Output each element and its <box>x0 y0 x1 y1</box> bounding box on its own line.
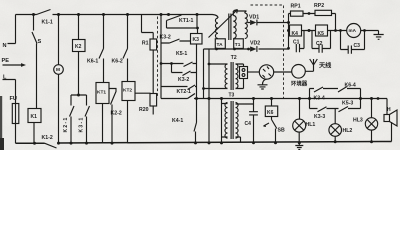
svg-text:C2: C2 <box>316 41 323 47</box>
svg-text:K6-4: K6-4 <box>345 83 356 89</box>
svg-text:HL3: HL3 <box>353 118 363 124</box>
svg-text:M: M <box>56 67 60 73</box>
svg-text:KT1-1: KT1-1 <box>179 18 194 24</box>
svg-text:KT2: KT2 <box>123 88 132 94</box>
svg-text:C4: C4 <box>245 121 252 127</box>
svg-text:C3: C3 <box>354 43 361 49</box>
svg-text:K3-1: K3-1 <box>79 116 85 132</box>
svg-text:K2-1: K2-1 <box>63 116 69 132</box>
svg-text:T2: T2 <box>231 55 237 61</box>
svg-text:KT1: KT1 <box>97 90 106 96</box>
svg-text:K2-2: K2-2 <box>111 111 122 117</box>
svg-text:RP1: RP1 <box>291 4 301 10</box>
svg-text:K6-1: K6-1 <box>87 59 98 65</box>
svg-text:K4: K4 <box>292 31 299 37</box>
svg-text:VD2: VD2 <box>250 41 260 47</box>
svg-text:K1-1: K1-1 <box>42 20 53 26</box>
svg-text:环境器: 环境器 <box>291 80 308 88</box>
svg-text:K5: K5 <box>318 31 325 37</box>
svg-text:KT2-1: KT2-1 <box>177 89 192 95</box>
svg-text:S: S <box>38 39 42 45</box>
svg-text:R20: R20 <box>139 107 149 113</box>
svg-text:K3-2: K3-2 <box>160 35 171 41</box>
svg-text:C1: C1 <box>293 40 300 46</box>
svg-text:K3-3: K3-3 <box>314 114 325 120</box>
svg-text:K6-2: K6-2 <box>112 59 123 65</box>
svg-text:K5-3: K5-3 <box>342 101 353 107</box>
svg-text:天线: 天线 <box>319 62 332 70</box>
svg-text:K1: K1 <box>31 114 38 120</box>
svg-text:H: H <box>387 107 391 113</box>
svg-text:TA: TA <box>217 42 224 48</box>
svg-text:K2: K2 <box>75 44 82 50</box>
svg-text:HL2: HL2 <box>343 128 353 134</box>
svg-text:L: L <box>3 75 7 81</box>
svg-text:RP2: RP2 <box>314 3 324 9</box>
svg-text:K6: K6 <box>267 110 274 116</box>
svg-text:K3-2: K3-2 <box>178 77 189 83</box>
svg-text:K4-1: K4-1 <box>172 118 183 124</box>
svg-text:K3-4: K3-4 <box>314 96 325 102</box>
svg-text:FU: FU <box>10 96 17 102</box>
svg-text:PE: PE <box>2 58 10 64</box>
svg-text:K1-2: K1-2 <box>42 135 53 141</box>
svg-text:K3: K3 <box>193 37 200 43</box>
svg-text:T3: T3 <box>229 93 235 99</box>
svg-text:VD1: VD1 <box>249 15 259 21</box>
svg-text:T1: T1 <box>235 42 241 48</box>
svg-text:HL1: HL1 <box>306 122 316 128</box>
svg-text:R1: R1 <box>142 41 149 47</box>
svg-text:SB: SB <box>278 128 285 134</box>
svg-text:mA: mA <box>349 28 357 33</box>
svg-text:K5-1: K5-1 <box>176 51 187 57</box>
svg-text:N: N <box>3 43 7 49</box>
